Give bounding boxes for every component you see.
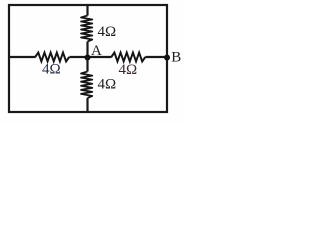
resistor R3 4Ω (top vertical) (81, 16, 92, 42)
resistor R4 4Ω (bottom vertical) (81, 72, 92, 99)
svg-text:4Ω: 4Ω (42, 62, 61, 78)
wire: bottom resistor to bottom border (86, 98, 88, 112)
node B junction dot (164, 55, 170, 61)
resistor R1 4Ω (left horizontal) (35, 53, 69, 62)
wire: right resistor to node B (145, 56, 167, 58)
wire: node A down to bottom resistor (86, 57, 88, 72)
svg-text:4Ω: 4Ω (98, 24, 117, 40)
resistor R2 4Ω (right horizontal) (111, 53, 145, 62)
svg-text:4Ω: 4Ω (98, 77, 117, 93)
svg-text:4Ω: 4Ω (119, 62, 138, 78)
svg-text:B: B (171, 50, 181, 66)
wire: top resistor to node A (86, 42, 88, 58)
node A junction dot (85, 55, 91, 61)
wire: top border down to top resistor (86, 5, 88, 16)
wire: left resistor to node A to right resistor (69, 56, 111, 58)
svg-text:A: A (91, 43, 102, 59)
wire: left border to left resistor (9, 56, 36, 58)
outer boundary wire rectangle (9, 5, 167, 112)
